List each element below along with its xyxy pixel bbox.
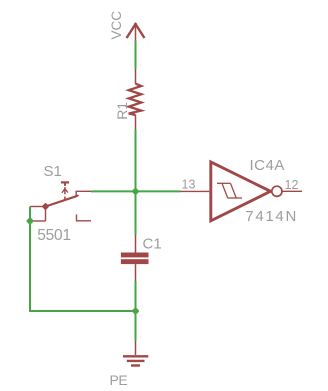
junction bottom: [133, 309, 138, 314]
junction switch left: [28, 219, 33, 224]
svg-text:S1: S1: [44, 163, 62, 180]
inverter IC4A body: [211, 162, 282, 221]
ground PE: [123, 341, 148, 366]
junction node A: [133, 189, 138, 194]
wire R1 to node: [135, 130, 137, 236]
wire switch left down: [30, 207, 136, 312]
svg-text:12: 12: [285, 178, 299, 192]
svg-text:C1: C1: [143, 235, 162, 252]
wire node to bottom: [135, 281, 137, 341]
switch S1: [30, 182, 91, 221]
wire VCC to R1: [135, 41, 137, 70]
svg-text:7414N: 7414N: [245, 208, 298, 225]
inverter IC4A output pin 12: [282, 190, 302, 192]
svg-text:5501: 5501: [37, 227, 71, 244]
svg-text:R1: R1: [114, 102, 130, 120]
inverter IC4A input pin 13: [181, 190, 210, 192]
svg-text:PE: PE: [110, 372, 128, 388]
capacitor C1: [121, 235, 149, 281]
svg-text:IC4A: IC4A: [250, 157, 285, 174]
resistor R1: [129, 69, 142, 130]
power flag VCC: [127, 24, 144, 41]
svg-text:13: 13: [182, 178, 196, 192]
svg-text:VCC: VCC: [109, 11, 124, 40]
wire horizontal main: [91, 190, 181, 192]
